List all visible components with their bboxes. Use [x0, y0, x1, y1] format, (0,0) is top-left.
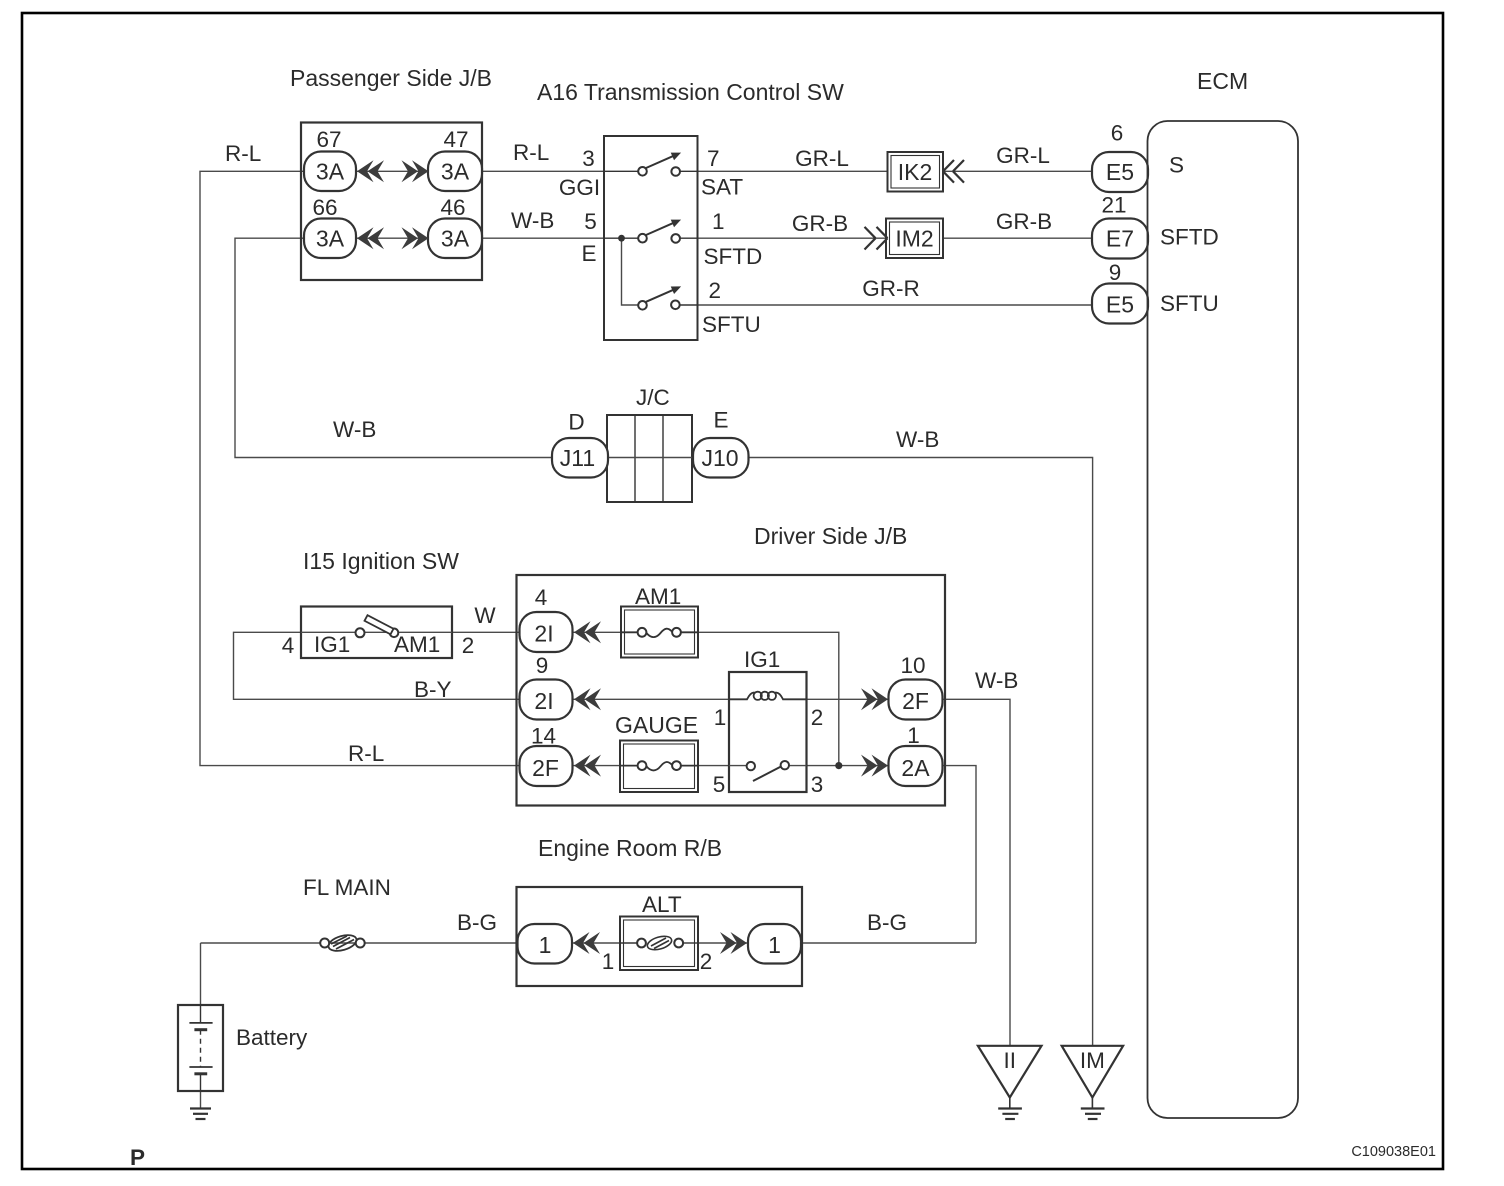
- arrow left at 2I9: [574, 688, 601, 710]
- svg-text:GR-L: GR-L: [996, 143, 1050, 168]
- ignition contact right: [390, 629, 399, 638]
- svg-text:R-L: R-L: [225, 141, 261, 166]
- svg-text:E5: E5: [1106, 292, 1134, 318]
- connector oval E5 pin9: [1092, 284, 1148, 324]
- svg-text:IG1: IG1: [314, 632, 350, 657]
- svg-text:AM1: AM1: [635, 584, 681, 609]
- svg-text:2: 2: [700, 949, 713, 974]
- svg-text:21: 21: [1101, 193, 1126, 218]
- GAUGE fuse box: [620, 741, 698, 793]
- GAUGE fuse element: [620, 762, 698, 770]
- svg-text:J/C: J/C: [636, 385, 670, 410]
- IG1 coil: [729, 693, 807, 700]
- svg-text:2: 2: [462, 633, 475, 658]
- connector oval E5 pin6: [1092, 152, 1148, 192]
- IG1 relay box: [729, 672, 807, 792]
- svg-text:R-L: R-L: [348, 741, 384, 766]
- svg-text:14: 14: [531, 724, 556, 749]
- svg-text:J11: J11: [560, 445, 595, 471]
- svg-text:67: 67: [316, 127, 341, 152]
- svg-text:II: II: [1004, 1048, 1017, 1073]
- svg-text:9: 9: [536, 653, 549, 678]
- svg-text:FL MAIN: FL MAIN: [303, 875, 391, 900]
- svg-text:W-B: W-B: [511, 208, 554, 233]
- svg-text:C109038E01: C109038E01: [1351, 1144, 1436, 1160]
- svg-text:I15 Ignition SW: I15 Ignition SW: [303, 548, 459, 574]
- svg-text:1: 1: [714, 705, 727, 730]
- wire 2F14 to GAUGE fuse: [573, 765, 621, 767]
- connector oval 3A 66: [304, 219, 356, 259]
- svg-text:1: 1: [907, 723, 920, 748]
- junction dot A16: [618, 235, 625, 242]
- svg-text:SFTU: SFTU: [1160, 291, 1219, 316]
- arrow left engine: [573, 932, 600, 954]
- Passenger Side J/B box: [301, 123, 482, 281]
- wire W-B J/C internal: [607, 457, 692, 459]
- wire battery to ground: [200, 1091, 202, 1108]
- wire GR-B A16 pin1 to IM2: [698, 237, 886, 239]
- svg-text:Driver Side J/B: Driver Side J/B: [754, 523, 907, 549]
- connector oval 2F pin14: [520, 746, 573, 786]
- arrow right row2: [402, 227, 429, 249]
- wire W ignition sw to 2I 4: [452, 631, 519, 633]
- svg-text:GAUGE: GAUGE: [615, 712, 698, 738]
- A16 internal E branch: [622, 238, 639, 305]
- wire W-B from passenger J/B 66 left, down, to J11: [235, 238, 552, 457]
- wire inside passenger J/B row2: [356, 237, 428, 239]
- svg-text:B-Y: B-Y: [414, 677, 452, 702]
- FL MAIN fusible link: [327, 932, 359, 953]
- svg-text:E: E: [581, 241, 596, 266]
- connector oval 1 left: [518, 924, 573, 964]
- svg-text:SAT: SAT: [701, 175, 743, 200]
- triangle II: [978, 1046, 1042, 1098]
- connector oval 2F pin10: [889, 680, 943, 720]
- svg-text:2: 2: [709, 278, 722, 303]
- svg-text:2I: 2I: [534, 621, 553, 647]
- svg-text:6: 6: [1111, 121, 1124, 146]
- svg-text:5: 5: [713, 772, 726, 797]
- IG1 switch: [729, 765, 746, 767]
- svg-text:2I: 2I: [534, 688, 553, 714]
- wire W-B 2F10 right, down to II triangle: [943, 699, 1011, 1046]
- svg-text:2A: 2A: [901, 755, 930, 781]
- arrow right at 2A1: [861, 755, 888, 777]
- svg-text:ECM: ECM: [1197, 68, 1248, 94]
- ALT fusible link element: [620, 942, 637, 944]
- wire B-G engine right 1 to vertical: [801, 942, 976, 944]
- svg-text:W: W: [474, 603, 496, 628]
- arrow left at 2I4: [574, 621, 601, 643]
- arrow right row1: [402, 160, 429, 182]
- ALT fuse box: [620, 917, 698, 971]
- arrow right at 2F10: [861, 688, 888, 710]
- wire engine 1 to ALT: [573, 942, 621, 944]
- svg-text:4: 4: [282, 633, 295, 658]
- wire GR-L A16 pin7 to IK2: [698, 170, 888, 172]
- svg-text:D: D: [568, 410, 584, 435]
- svg-text:4: 4: [535, 585, 548, 610]
- IM stem and ground: [1091, 1098, 1093, 1109]
- svg-text:IK2: IK2: [898, 159, 933, 185]
- arrow left row2: [357, 227, 384, 249]
- wire AM1 fuse right, down to node: [698, 632, 839, 765]
- svg-text:3: 3: [811, 772, 824, 797]
- AM1 fuse box: [621, 607, 698, 658]
- svg-text:3A: 3A: [441, 159, 470, 185]
- svg-text:1: 1: [768, 932, 781, 958]
- wire W-B J10 right, down to IM triangle: [749, 458, 1093, 1046]
- svg-text:W-B: W-B: [896, 427, 939, 452]
- wire IG1 pin2 to 2F 10: [807, 698, 889, 700]
- junction dot driver J/B: [835, 762, 842, 769]
- svg-text:Battery: Battery: [236, 1025, 308, 1050]
- battery cells: [189, 1005, 212, 1091]
- connector oval 3A 67: [304, 152, 356, 192]
- Battery box: [178, 1005, 223, 1091]
- J/C box: [607, 415, 692, 502]
- svg-text:GR-R: GR-R: [862, 276, 920, 301]
- svg-text:W-B: W-B: [333, 417, 376, 442]
- switch row3 SFTU: [638, 285, 697, 310]
- svg-text:A16 Transmission Control SW: A16 Transmission Control SW: [537, 79, 844, 105]
- wire 2A1 right, down to B-G row: [943, 766, 977, 943]
- connector oval 2I pin9: [520, 680, 573, 720]
- svg-text:1: 1: [602, 949, 615, 974]
- I15 ignition switch box: [301, 607, 452, 659]
- wire B-G battery to engine room 1: [201, 942, 520, 944]
- ground below battery: [190, 1109, 211, 1120]
- ignition lever: [365, 615, 394, 634]
- svg-text:B-G: B-G: [867, 910, 907, 935]
- wire R-L 47 to A16 pin3: [482, 170, 604, 172]
- wire ALT to right 1: [698, 942, 748, 944]
- wire GR-B IM2 to E7: [943, 237, 1092, 239]
- svg-text:2F: 2F: [532, 755, 559, 781]
- svg-text:IG1: IG1: [744, 647, 780, 672]
- svg-text:J10: J10: [701, 445, 738, 471]
- svg-text:1: 1: [539, 932, 552, 958]
- svg-text:SFTD: SFTD: [1160, 225, 1219, 250]
- svg-text:10: 10: [900, 653, 925, 678]
- svg-text:SFTD: SFTD: [704, 244, 763, 269]
- arrow left row1: [357, 160, 384, 182]
- chevrons left-pointing after IK2: [943, 160, 964, 183]
- svg-text:IM: IM: [1080, 1048, 1105, 1073]
- svg-text:E5: E5: [1106, 159, 1134, 185]
- svg-text:Engine Room R/B: Engine Room R/B: [538, 835, 722, 861]
- Engine Room R/B box: [517, 887, 803, 986]
- connector oval E7 pin21: [1092, 219, 1148, 259]
- svg-text:E7: E7: [1106, 226, 1134, 252]
- connector oval 2A pin1: [889, 746, 943, 786]
- switch row1 SAT: [604, 151, 698, 176]
- svg-text:R-L: R-L: [513, 140, 549, 165]
- svg-text:3: 3: [582, 146, 595, 171]
- connector oval J10: [693, 438, 749, 478]
- svg-text:B-G: B-G: [457, 910, 497, 935]
- A16 box: [604, 136, 698, 340]
- svg-text:9: 9: [1109, 260, 1122, 285]
- ignition contact circle: [356, 628, 365, 637]
- svg-text:46: 46: [440, 195, 465, 220]
- svg-text:7: 7: [707, 146, 720, 171]
- ECM box: [1148, 121, 1299, 1118]
- wire R-L from passenger J/B 67 left, down, to 2F 14: [200, 171, 519, 765]
- svg-text:GR-L: GR-L: [795, 146, 849, 171]
- svg-text:2: 2: [811, 705, 824, 730]
- svg-text:SFTU: SFTU: [702, 312, 761, 337]
- wire battery stem up: [200, 943, 202, 1005]
- arrow right engine: [720, 932, 747, 954]
- connector oval 1 right: [748, 924, 801, 964]
- svg-text:3A: 3A: [441, 226, 470, 252]
- connector oval 3A 46: [428, 219, 482, 259]
- wire IG1 pin3 to 2A 1: [807, 765, 889, 767]
- svg-text:W-B: W-B: [975, 668, 1018, 693]
- svg-text:IM2: IM2: [895, 226, 933, 252]
- svg-text:5: 5: [584, 209, 597, 234]
- wire 2I9 to IG1 coil: [573, 698, 730, 700]
- switch row2 SFTD: [604, 218, 698, 242]
- svg-text:P: P: [130, 1145, 145, 1170]
- wire B-Y ignition sw pin4 left down to 2I 9: [234, 632, 520, 699]
- svg-text:47: 47: [443, 127, 468, 152]
- chevrons right-pointing before IM2: [865, 227, 888, 250]
- II stem and ground: [1009, 1098, 1011, 1109]
- IM2 box: [886, 219, 943, 259]
- arrow left at 2F14: [574, 755, 601, 777]
- triangle IM: [1062, 1046, 1123, 1098]
- wire W-B 46 to A16 pin5: [482, 237, 604, 239]
- svg-text:Passenger Side J/B: Passenger Side J/B: [290, 65, 492, 91]
- svg-text:1: 1: [712, 209, 725, 234]
- svg-text:GR-B: GR-B: [792, 211, 848, 236]
- svg-text:E: E: [713, 408, 728, 433]
- svg-text:3A: 3A: [316, 159, 345, 185]
- svg-text:S: S: [1169, 153, 1184, 178]
- AM1 fuse element: [621, 629, 698, 637]
- wire 2I4 to AM1 fuse: [573, 631, 622, 633]
- wire GR-R A16 pin2 to E5: [698, 304, 1093, 306]
- IK2 box: [888, 152, 944, 192]
- svg-text:GGI: GGI: [559, 175, 600, 200]
- svg-text:66: 66: [312, 195, 337, 220]
- svg-text:3A: 3A: [316, 226, 345, 252]
- wire GAUGE to IG1 pin5: [698, 765, 729, 767]
- Driver Side J/B box: [517, 575, 946, 806]
- svg-text:ALT: ALT: [642, 892, 682, 917]
- svg-text:GR-B: GR-B: [996, 209, 1052, 234]
- svg-text:2F: 2F: [902, 688, 929, 714]
- wire GR-L IK2 to E5: [943, 170, 1092, 172]
- connector oval 3A 47: [428, 152, 482, 192]
- connector oval J11: [552, 438, 608, 478]
- connector oval 2I pin4: [520, 612, 573, 652]
- svg-text:AM1: AM1: [394, 632, 440, 657]
- wire inside passenger J/B row1: [356, 170, 428, 172]
